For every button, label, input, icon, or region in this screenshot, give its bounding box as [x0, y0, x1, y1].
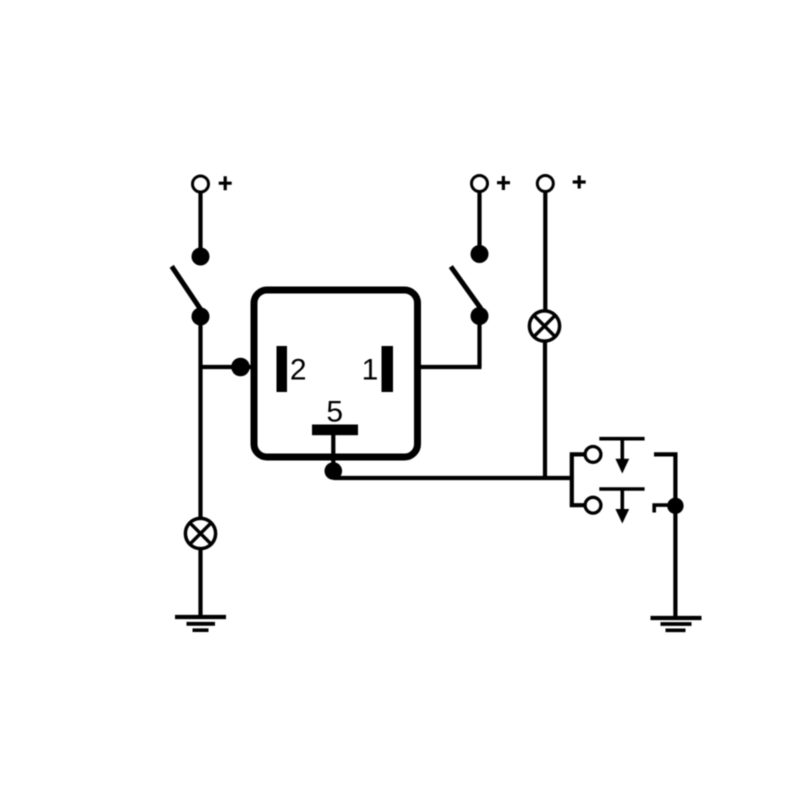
push-button lower fixed contact	[585, 497, 601, 513]
wire switch S2 down	[477, 316, 481, 367]
relay pin 5 terminal bar	[312, 425, 358, 436]
junction below pin 5	[325, 462, 343, 480]
push-button upper bridge bar	[599, 437, 644, 441]
wire branch to relay pin 2	[201, 365, 255, 369]
battery terminal + (right)	[537, 176, 585, 192]
push-button lower bridge bar	[599, 487, 644, 491]
wire lamp E2 to node wire	[543, 341, 547, 478]
junction at ground rail	[667, 498, 683, 514]
push-button upper fixed contact	[585, 447, 601, 463]
lower right contact hook	[654, 505, 675, 512]
node: switch S1 upper contact	[192, 248, 210, 266]
wire terminal to lamp E2	[543, 192, 547, 312]
ground (left)	[175, 617, 226, 630]
push-button feed bracket	[572, 454, 585, 505]
wire pin 5 to push-button	[333, 476, 572, 480]
lamp E2 (indicator lamp)	[529, 311, 559, 341]
ground (right)	[651, 618, 702, 630]
wire lamp E1 to ground	[198, 548, 202, 617]
lamp E1 (indicator lamp)	[185, 518, 215, 548]
wire terminal to switch S1	[198, 193, 202, 257]
relay pin 2 terminal bar	[277, 346, 288, 392]
switch S2 blade (open)	[451, 267, 481, 309]
wire junction to ground (right)	[673, 506, 677, 618]
battery terminal + (left)	[193, 176, 232, 192]
battery terminal + (middle)	[472, 176, 511, 192]
svg-text:5: 5	[326, 395, 343, 428]
node: switch S2 upper contact	[471, 245, 489, 263]
switch S1 blade (open)	[172, 266, 201, 309]
node: switch S1 lower contact	[192, 308, 210, 326]
push-button upper actuation arrow	[615, 439, 629, 474]
wire pin 5 to junction	[331, 435, 335, 470]
wire to relay pin 1	[418, 365, 482, 369]
node: switch S2 lower contact	[471, 307, 489, 325]
push-button lower actuation arrow	[615, 489, 629, 524]
wire upper right contact to ground rail	[654, 454, 675, 505]
junction on pin-2 wire	[231, 358, 250, 377]
relay pin 1 terminal bar	[382, 346, 394, 392]
svg-text:2: 2	[290, 353, 307, 386]
wire terminal to switch S2	[477, 192, 481, 254]
wire switch S1 to lamp E1	[198, 316, 202, 518]
svg-text:1: 1	[362, 353, 379, 386]
flasher relay U1 (body)	[254, 290, 418, 457]
